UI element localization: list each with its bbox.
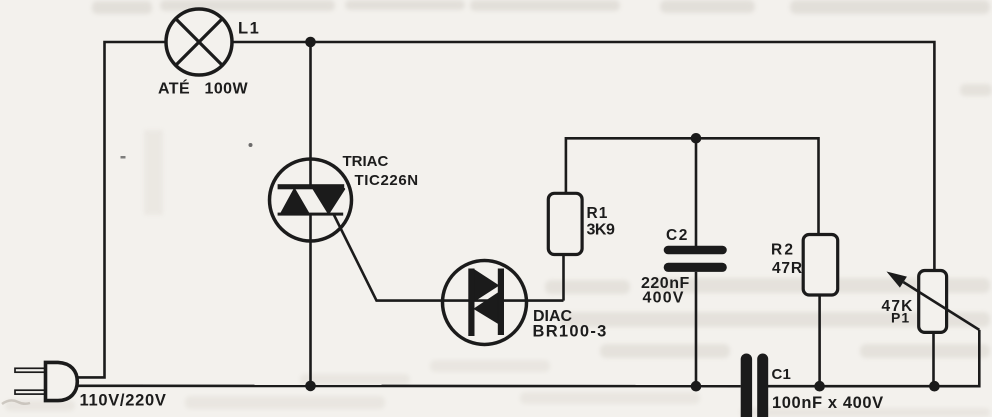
resistor R2 <box>803 235 838 296</box>
wire: diac up to R1 <box>562 254 565 301</box>
svg-text:400V: 400V <box>643 290 685 307</box>
left bottom squiggle artifact <box>2 400 30 404</box>
wire: gate diagonal to diac <box>334 214 444 301</box>
wire: R1 top riser and horizontal bus to R2 <box>566 138 819 234</box>
svg-text:R1: R1 <box>587 205 609 222</box>
wire: plug upper lead + left rail + top rail to lamp <box>77 42 167 377</box>
capacitor C1 <box>741 354 769 417</box>
potentiometer P1 <box>887 271 980 387</box>
bleed-through paragraph right <box>545 84 992 358</box>
svg-text:110V/220V: 110V/220V <box>80 392 167 410</box>
wire: R2 down to bottom rail <box>818 295 821 386</box>
svg-text:R2: R2 <box>771 242 795 259</box>
node: C2 bottom junction <box>691 381 702 392</box>
wire: junction down to C2 <box>695 138 698 246</box>
node: P1 bottom junction <box>929 381 940 392</box>
wire: C2 down to bottom rail <box>695 272 698 386</box>
node: C2 top junction <box>691 133 702 144</box>
wire: junction down to triac <box>309 42 312 186</box>
svg-text:TIC226N: TIC226N <box>355 172 419 189</box>
plug 110V/220V <box>15 362 77 400</box>
svg-text:P1: P1 <box>891 310 910 326</box>
node: top junction <box>305 37 316 48</box>
svg-text:C2: C2 <box>666 227 689 244</box>
faint smudge strip <box>144 130 163 215</box>
svg-text:ATÉ 100W: ATÉ 100W <box>158 79 248 98</box>
svg-text:BR100-3: BR100-3 <box>533 323 608 341</box>
svg-text:47R: 47R <box>772 260 803 277</box>
speck artifact <box>249 143 253 147</box>
capacitor C2 <box>664 246 727 272</box>
lamp L1 <box>166 9 232 75</box>
resistor R1 <box>548 193 582 254</box>
triac U1 TIC226N <box>270 159 352 241</box>
wire: bottom rail right section (C1 to wiper riser) <box>768 330 979 386</box>
speck artifact 2 <box>121 156 126 159</box>
svg-text:100nF x 400V: 100nF x 400V <box>772 394 884 412</box>
svg-text:C1: C1 <box>772 366 792 383</box>
diac D1 BR100-3 <box>443 261 564 345</box>
svg-text:L1: L1 <box>238 20 260 38</box>
wire: top rail from lamp to right corner and right riser to P1 <box>232 42 935 271</box>
svg-text:3K9: 3K9 <box>587 222 615 239</box>
node: triac bottom junction <box>305 381 316 392</box>
wire: triac down to bottom rail <box>309 214 312 386</box>
svg-text:TRIAC: TRIAC <box>343 153 389 170</box>
bleed-through headline top <box>92 0 990 14</box>
node: R2 bottom junction <box>814 381 825 392</box>
bleed-through bottom rows <box>5 360 990 417</box>
wire: bottom rail left section (plug to C1) <box>77 384 741 387</box>
